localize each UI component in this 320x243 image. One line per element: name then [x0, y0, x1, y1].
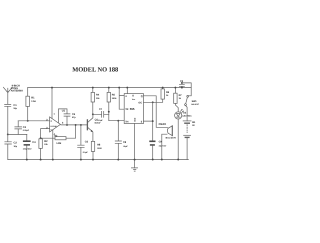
wire (- input)	[41, 129, 50, 139]
switch SW1	[189, 88, 192, 96]
battery B1	[183, 120, 191, 122]
svg-text:SW-SPST: SW-SPST	[191, 103, 200, 106]
op-amp U1	[50, 117, 61, 132]
svg-text:100k: 100k	[112, 97, 117, 100]
svg-text:C6: C6	[85, 141, 89, 144]
svg-text:R5: R5	[112, 94, 116, 97]
antenna label	[11, 84, 23, 92]
emitter resistor R8	[91, 141, 94, 151]
top rail	[28, 87, 191, 89]
svg-text:10p: 10p	[14, 145, 18, 148]
wire pin7 discharge	[144, 99, 163, 102]
svg-text:47p: 47p	[72, 116, 76, 119]
IC U2 555	[124, 94, 143, 124]
svg-text:6: 6	[62, 122, 64, 125]
transistor Q1	[86, 120, 88, 130]
capacitor C3	[15, 121, 22, 135]
svg-text:GND: GND	[133, 117, 136, 122]
capacitor C8	[115, 121, 121, 160]
wire pin8 vcc	[126, 88, 128, 94]
svg-text:CA3140: CA3140	[50, 125, 57, 128]
capacitor C3 (rail)	[179, 83, 191, 88]
bottom rail	[8, 159, 189, 161]
resistor R6	[162, 88, 164, 89]
svg-text:0.05µF: 0.05µF	[23, 129, 30, 132]
svg-text:220R: 220R	[97, 147, 102, 150]
svg-text:R6: R6	[166, 91, 170, 94]
svg-text:SW1: SW1	[192, 100, 198, 103]
wire pin4 reset	[119, 88, 124, 110]
svg-text:C3: C3	[23, 126, 27, 129]
wire V+ pin7	[51, 88, 53, 119]
capacitor C7	[93, 111, 109, 117]
svg-text:C2: C2	[14, 141, 18, 144]
wire pin1 gnd	[134, 124, 136, 168]
svg-text:R4: R4	[96, 94, 100, 97]
svg-text:1k: 1k	[179, 97, 182, 100]
svg-text:TR: TR	[125, 108, 128, 111]
svg-text:.01µF: .01µF	[123, 145, 129, 148]
svg-text:555: 555	[130, 107, 135, 111]
resistor R5	[108, 88, 110, 121]
svg-text:C7: C7	[99, 108, 103, 111]
capacitor C6	[78, 125, 85, 160]
svg-text:7: 7	[54, 113, 56, 116]
svg-text:R7: R7	[179, 94, 183, 97]
wire V- pin4	[52, 130, 54, 160]
svg-text:ANTENNA: ANTENNA	[11, 90, 23, 93]
svg-text:U1: U1	[62, 110, 66, 113]
svg-text:D2: D2	[183, 111, 187, 114]
capacitor C1	[5, 104, 11, 134]
resistor R1	[27, 88, 29, 121]
svg-text:0.1µF: 0.1µF	[98, 119, 104, 122]
antenna	[3, 87, 12, 104]
wire	[8, 133, 27, 135]
svg-text:C5: C5	[72, 113, 76, 116]
svg-text:0.1µF: 0.1µF	[83, 151, 89, 154]
capacitor C9	[149, 141, 155, 143]
resistor R7	[175, 88, 178, 112]
svg-text:Vcc: Vcc	[132, 98, 135, 101]
svg-text:OC: OC	[138, 102, 142, 105]
svg-text:Q: Q	[141, 95, 143, 98]
capacitor C5 feedback	[59, 109, 71, 125]
svg-text:1.5M: 1.5M	[56, 142, 61, 145]
wire pin5/C9	[144, 102, 153, 140]
svg-text:R8: R8	[97, 144, 101, 147]
svg-text:MODEL NO 188: MODEL NO 188	[72, 67, 118, 74]
svg-text:10k: 10k	[44, 143, 48, 146]
svg-text:9V: 9V	[192, 124, 195, 127]
wire output	[61, 124, 88, 126]
capacitor C4	[26, 134, 28, 159]
svg-text:BC547: BC547	[95, 122, 101, 125]
svg-text:R1: R1	[31, 97, 35, 100]
svg-text:R2: R2	[44, 140, 48, 143]
svg-text:2: 2	[46, 127, 48, 130]
svg-text:10p: 10p	[13, 107, 17, 110]
svg-text:100µF/16V: 100µF/16V	[23, 148, 33, 151]
svg-text:1k: 1k	[166, 94, 169, 97]
LED D2	[175, 112, 182, 119]
wire pin3 output	[144, 96, 168, 128]
wire (+ input)	[18, 120, 49, 122]
ground	[131, 168, 137, 171]
resistor R4	[92, 88, 94, 115]
resistor R2	[39, 139, 42, 149]
svg-text:TH: TH	[125, 120, 128, 123]
resistor R3 feedback	[41, 125, 76, 138]
svg-text:C1: C1	[13, 104, 17, 107]
svg-text:47µF/16V: 47µF/16V	[159, 145, 167, 148]
svg-text:PIEZO: PIEZO	[159, 123, 167, 126]
node A (antenna/C2/C3 junction)	[7, 133, 9, 135]
svg-text:B1: B1	[192, 121, 196, 124]
svg-text:C4: C4	[32, 141, 36, 144]
wire to pin6	[109, 120, 124, 122]
piezo buzzer	[171, 126, 173, 136]
svg-text:10k: 10k	[96, 97, 100, 100]
svg-text:C8: C8	[123, 141, 127, 144]
svg-text:BUZZER: BUZZER	[166, 136, 177, 139]
capacitor C2	[5, 134, 12, 159]
svg-text:2.2M: 2.2M	[31, 100, 36, 103]
